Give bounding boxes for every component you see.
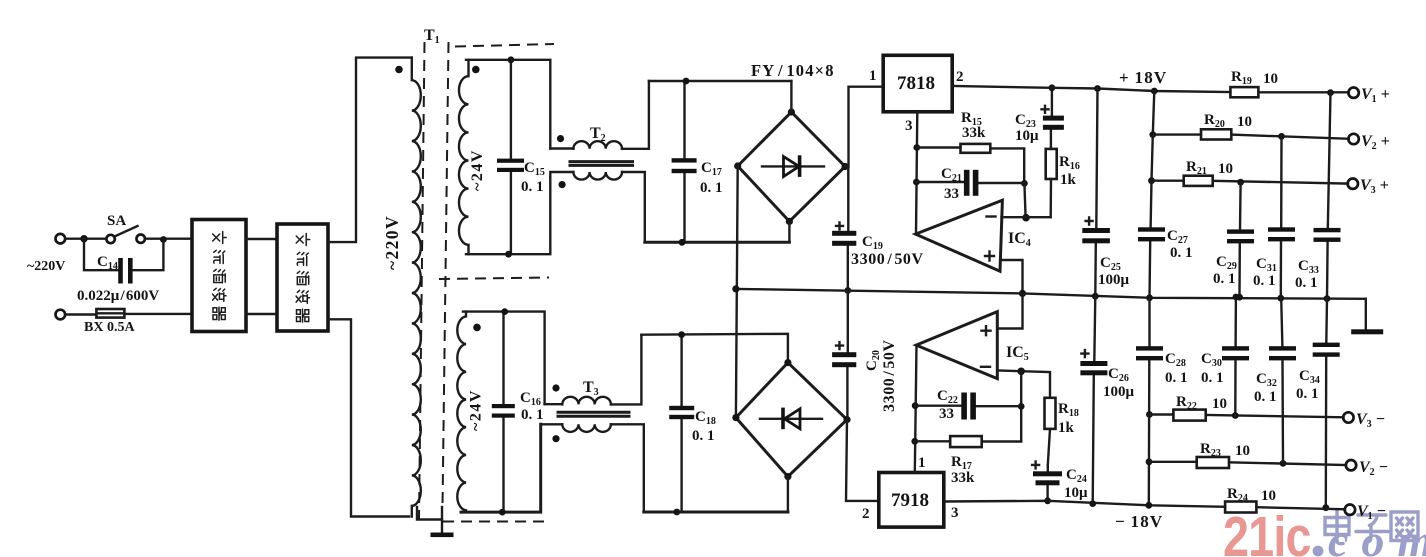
node: ground rail left junction	[732, 285, 739, 292]
capacitor C20 3300/50V (rotated labels)	[832, 291, 898, 420]
wire: T3 top output to C18 rail	[611, 335, 642, 405]
wire: upper bridge bottom vertex to AC rail	[788, 221, 790, 242]
svg-text:10μ: 10μ	[1064, 485, 1088, 501]
svg-text:33k: 33k	[951, 470, 975, 486]
node: R15/C21 right junction	[1021, 180, 1028, 187]
svg-text:~220V: ~220V	[382, 215, 402, 270]
AC filter box 2 (jiao liu lv bo qi)	[277, 224, 328, 331]
wire: box2 bottom to primary bottom	[328, 319, 409, 516]
wire: IC5 output down to 7918 pin1	[915, 345, 917, 473]
capacitor C34 0.1	[1296, 299, 1340, 508]
node: output/R17 junction	[911, 438, 918, 445]
node: C17 bottom junction	[679, 239, 686, 246]
capacitor C33 0.1	[1295, 93, 1341, 299]
node: IC4 inverting input junction	[1022, 214, 1030, 222]
svg-text:0.022μ / 600V: 0.022μ / 600V	[77, 288, 159, 304]
svg-text:0. 1: 0. 1	[521, 407, 544, 423]
wire: live input to switch	[65, 237, 106, 239]
node: junction after SA	[160, 236, 167, 243]
choke T3	[541, 379, 629, 432]
wire: T3 bottom output to C18 bottom rail	[611, 424, 644, 512]
regulator U 7818	[869, 55, 964, 134]
svg-text:10: 10	[1237, 114, 1252, 130]
node: R20/R21/C27 feed junction	[1151, 88, 1158, 95]
wire: C18 loop bottom rail	[644, 511, 788, 514]
svg-text:10: 10	[1235, 443, 1250, 459]
svg-text:100μ: 100μ	[1103, 384, 1135, 400]
svg-text:~24V: ~24V	[469, 149, 486, 191]
capacitor C15	[497, 60, 545, 254]
transformer T1 primary winding (~220V)	[412, 58, 421, 517]
wire: upper secondary top rail	[466, 60, 550, 149]
node: C15 top junction	[508, 56, 515, 63]
node: upper bridge bottom vertex	[786, 218, 793, 225]
svg-text:V1 −: V1 −	[1357, 503, 1386, 522]
resistor R20 10	[1153, 112, 1349, 140]
capacitor C21 33	[916, 166, 1024, 202]
node: R22 feed junction	[1146, 411, 1153, 418]
node: R21 feed junction	[1148, 177, 1155, 184]
transformer T1 lower secondary winding (~24V)	[457, 312, 466, 512]
wire: IC4 non-inverting input to ground rail	[1001, 260, 1023, 293]
node: upper bridge top vertex	[788, 108, 795, 115]
node: upper bridge right vertex	[842, 163, 849, 170]
shield dashed line top	[455, 44, 554, 47]
node: upper secondary phase dot	[472, 66, 480, 74]
node: primary phase dot	[395, 66, 403, 74]
terminal V3+	[1348, 179, 1358, 189]
svg-text:33k: 33k	[962, 125, 986, 141]
SECTION: watermark	[1223, 506, 1426, 557]
node: C22 right junction	[1018, 403, 1025, 410]
capacitor C28 0.1	[1136, 298, 1188, 506]
wire: T2 top output to C17 rail	[622, 81, 649, 149]
resistor R24 10	[1225, 486, 1345, 513]
svg-text:0. 1: 0. 1	[1213, 271, 1236, 287]
node: C30 ground junction	[1233, 294, 1240, 301]
svg-text:~220V: ~220V	[27, 259, 65, 274]
capacitor C19 3300/50V	[832, 167, 924, 291]
wire: +18V rail (7818 pin2 to R19)	[952, 86, 1230, 92]
node: T2 phase dot top	[557, 135, 564, 142]
capacitor C32 0.1	[1254, 298, 1296, 463]
node: C25/C26 ground junction	[1092, 293, 1099, 300]
resistor R21 10	[1152, 159, 1349, 186]
svg-text:33: 33	[939, 406, 954, 422]
capacitor C30 0.1	[1201, 297, 1249, 416]
svg-text:3300 / 50V: 3300 / 50V	[851, 251, 924, 268]
terminal V1-	[1345, 505, 1355, 515]
wire: -18V rail (7918 pin3 to R24)	[944, 501, 1225, 507]
node: C16 top junction	[501, 308, 508, 315]
svg-text:0. 1: 0. 1	[1165, 370, 1188, 386]
node: R23 feed junction	[1146, 458, 1153, 465]
svg-text:0. 1: 0. 1	[700, 180, 723, 196]
node: opamp plus inputs ground junction	[1019, 290, 1026, 297]
svg-text:2: 2	[862, 506, 870, 522]
svg-text:0. 1: 0. 1	[1170, 245, 1193, 261]
wire: T2 bottom output to C17 bottom rail	[622, 172, 645, 242]
node: C17 top junction	[683, 78, 690, 85]
terminal V1+	[1348, 88, 1358, 98]
shield dashed line bottom	[443, 521, 545, 523]
wire: upper bridge minus output down through ground rail to lower bridge	[736, 166, 738, 418]
node: lower secondary phase dot	[473, 324, 481, 332]
op-amp IC4	[916, 200, 1031, 271]
node: C18 bottom junction	[673, 509, 680, 516]
node: lower bridge left vertex	[732, 414, 739, 421]
svg-text:0. 1: 0. 1	[1296, 386, 1319, 402]
AC filter box 1 (jiao liu lv bo qi)	[192, 220, 246, 332]
ground symbol right	[1351, 299, 1383, 335]
svg-text:3: 3	[905, 118, 913, 134]
svg-text:0. 1: 0. 1	[1201, 370, 1224, 386]
terminal: AC input live	[56, 234, 66, 244]
op-amp IC5	[916, 312, 1029, 379]
node: C15 bottom junction	[505, 251, 512, 258]
svg-text:3300 / 50V: 3300 / 50V	[881, 339, 898, 412]
capacitor C17	[672, 81, 723, 242]
switch SA	[106, 213, 144, 243]
shield dashed line middle	[439, 278, 549, 280]
node: lower bridge right vertex	[843, 416, 850, 423]
svg-text:33: 33	[944, 186, 959, 202]
resistor R18 1k	[1045, 398, 1079, 465]
transformer T1 core (dashed lines)	[419, 42, 425, 519]
node: C26 bottom junction	[1089, 500, 1096, 507]
wire: box1 to box2 top	[246, 238, 277, 240]
svg-text:1: 1	[869, 68, 877, 84]
capacitor C22 33	[915, 388, 1021, 422]
svg-text:10: 10	[1263, 71, 1278, 87]
wire: neutral to fuse	[65, 313, 96, 315]
wire: C18 loop top rail (AC to lower bridge)	[641, 334, 788, 363]
capacitor C29 0.1	[1213, 182, 1254, 297]
fuse BX 0.5A	[84, 309, 135, 335]
svg-text:10: 10	[1261, 488, 1276, 504]
bridge rectifier upper (diamond)	[738, 112, 845, 221]
wire: lower secondary top rail	[463, 312, 545, 405]
svg-text:− 18V: − 18V	[1115, 512, 1163, 531]
svg-text:1: 1	[918, 455, 926, 471]
transformer T1 upper secondary winding (~24V)	[459, 60, 469, 254]
svg-text:0. 1: 0. 1	[1253, 273, 1276, 289]
node: IC5 inverting input junction	[1017, 368, 1025, 376]
wire: lower secondary bottom rail	[461, 424, 541, 512]
wire: R21 feed vertical	[1152, 135, 1153, 181]
wire: IC4 inverting input to R16 chain	[1002, 216, 1051, 218]
wire: upper bridge top vertex to AC rail	[790, 81, 792, 112]
regulator U 7918	[862, 455, 959, 527]
node: C27 ground junction	[1146, 294, 1153, 301]
node: T3 phase dot bottom	[552, 435, 559, 442]
svg-text:+ 18V: + 18V	[1119, 68, 1167, 87]
capacitor C23 10u	[1015, 88, 1064, 149]
resistor R22 10	[1149, 394, 1343, 421]
svg-text:10: 10	[1212, 396, 1227, 412]
svg-text:0. 1: 0. 1	[1295, 275, 1318, 291]
node: upper bridge left vertex	[734, 162, 741, 169]
node: C18 top junction	[678, 331, 685, 338]
node: C31 ground junction	[1277, 295, 1284, 302]
bridge rectifier lower (diamond)	[736, 363, 847, 477]
node: C19/C20 ground rail junction	[844, 287, 851, 294]
node: C30 bottom junction	[1232, 412, 1239, 419]
node: C33 top junction	[1327, 89, 1334, 96]
node: C34 bottom junction	[1322, 504, 1329, 511]
svg-text:0. 1: 0. 1	[1254, 389, 1277, 405]
svg-text:0. 1: 0. 1	[692, 428, 715, 444]
wire: upper secondary bottom rail	[466, 177, 550, 254]
wire: switch to filter box 1	[145, 237, 192, 239]
choke T2	[550, 125, 632, 180]
node: output/C22 junction	[912, 402, 919, 409]
node: C25 top junction	[1094, 85, 1101, 92]
ground (core)	[417, 507, 454, 537]
wire: R15/C21 vertical to inverting input	[1024, 183, 1025, 217]
node: lower bridge top vertex	[784, 359, 791, 366]
wire: upper bridge plus output vertical (to 7818 pin1 / C19)	[845, 87, 883, 167]
svg-text:BX 0.5A: BX 0.5A	[84, 320, 135, 335]
capacitor C18	[669, 335, 716, 513]
wire: IC5 inverting input to R18 chain	[998, 371, 1050, 398]
resistor R17 33k	[915, 436, 1021, 486]
node: C24 bottom junction	[1044, 497, 1051, 504]
svg-text:7918: 7918	[891, 490, 929, 511]
svg-text:V3 −: V3 −	[1356, 411, 1385, 430]
node: C31 top junction	[1278, 133, 1285, 140]
svg-text:~24V: ~24V	[468, 389, 485, 431]
capacitor C27 0.1	[1138, 181, 1193, 298]
svg-text:1k: 1k	[1058, 420, 1075, 436]
node: C23 top junction	[1049, 84, 1056, 91]
node: lower bridge bottom vertex	[784, 473, 791, 480]
resistor R23 10	[1149, 441, 1346, 468]
svg-text:0. 1: 0. 1	[521, 179, 544, 195]
wire: 7818 pin3 down to IC4 output	[916, 112, 917, 234]
svg-text:10: 10	[1218, 161, 1233, 177]
node: C28 bottom junction	[1145, 502, 1152, 509]
terminal: AC input neutral	[56, 310, 66, 320]
svg-text:SA: SA	[107, 213, 126, 229]
terminal V3-	[1343, 412, 1353, 422]
wire: ground rail	[736, 289, 1366, 299]
wire: fuse to filter box 1	[124, 313, 192, 315]
svg-text:100μ: 100μ	[1098, 272, 1130, 288]
node: C16 bottom junction	[499, 509, 506, 516]
terminal V2-	[1346, 460, 1356, 470]
capacitor C24 10u	[1032, 461, 1088, 501]
wire: box2 top to primary top	[328, 58, 412, 243]
wire: R20 feed vertical	[1153, 91, 1155, 135]
resistor R15 33k	[917, 110, 1024, 183]
wire: inverting junction down to C22/R17	[1020, 371, 1022, 441]
wire: C17 loop bottom rail	[645, 241, 790, 244]
wire: C17 loop top rail	[649, 80, 792, 82]
svg-text:FY / 104×8: FY / 104×8	[751, 61, 835, 80]
node: C29 ground junction	[1236, 294, 1243, 301]
terminal V2+	[1348, 134, 1358, 144]
capacitor C25 100u	[1082, 89, 1129, 297]
resistor R16 1k	[1046, 149, 1080, 217]
node: C29 top junction	[1237, 179, 1244, 186]
node: T3 phase dot top	[552, 384, 559, 391]
node: T2 phase dot bottom	[559, 181, 566, 188]
svg-text:2: 2	[956, 69, 964, 85]
wire: IC5 non-inverting input up to ground rail	[998, 293, 1023, 328]
node: C33 ground junction	[1324, 295, 1331, 302]
capacitor C14 (across SA)	[84, 239, 163, 284]
svg-text:10μ: 10μ	[1015, 128, 1039, 144]
resistor R19 10	[1230, 69, 1348, 97]
svg-text:7818: 7818	[897, 73, 935, 94]
node: pin3/R15 junction	[913, 144, 920, 151]
capacitor C26 100u	[1080, 296, 1134, 503]
svg-text:V2 −: V2 −	[1359, 459, 1388, 478]
svg-text:3: 3	[951, 505, 959, 521]
svg-text:1k: 1k	[1060, 172, 1077, 188]
node: C32 bottom junction	[1280, 460, 1287, 467]
capacitor C31 0.1	[1253, 136, 1295, 298]
node: junction before SA	[80, 235, 87, 242]
wire: box1 to box2 bottom	[246, 313, 277, 315]
node: pin3/C21 junction	[913, 179, 920, 186]
node: R20 feed junction	[1149, 131, 1156, 138]
capacitor C16	[492, 312, 544, 512]
wire: lower bridge bottom vertex to bottom AC rail	[787, 477, 789, 512]
wire: lower bridge minus output to 7918 pin2	[846, 420, 879, 501]
